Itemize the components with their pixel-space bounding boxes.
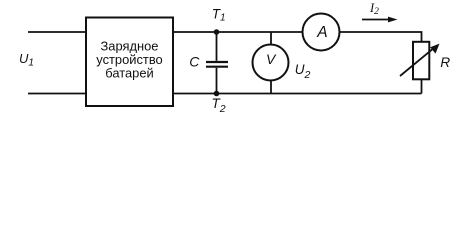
node T1 junction dot	[214, 29, 220, 35]
wire top: box to ammeter	[173, 31, 303, 33]
current arrow I2 head	[388, 17, 398, 23]
svg-text:T2: T2	[212, 96, 226, 115]
svg-text:R: R	[440, 55, 450, 70]
resistor variable arrow line	[400, 48, 434, 76]
current arrow I2 line	[362, 19, 389, 21]
node T2 junction dot	[214, 91, 220, 97]
resistor R body	[413, 42, 429, 80]
ammeter A circle	[303, 14, 340, 51]
svg-text:T1: T1	[212, 6, 226, 23]
block U charger	[86, 18, 173, 107]
wire input top-left	[28, 31, 86, 33]
svg-text:U2: U2	[295, 62, 311, 81]
svg-text:I2: I2	[369, 1, 379, 17]
capacitor C plates	[206, 61, 228, 63]
wire top: ammeter to resistor	[340, 32, 422, 42]
capacitor C top lead	[216, 32, 218, 61]
svg-text:C: C	[189, 54, 200, 70]
voltmeter top lead	[270, 32, 272, 45]
resistor variable arrow head	[430, 44, 439, 54]
svg-text:A: A	[316, 24, 327, 41]
voltmeter U1 circle	[253, 45, 289, 81]
svg-text:U1: U1	[19, 51, 34, 69]
svg-text:батарей: батарей	[105, 66, 153, 81]
resistor R bottom lead	[421, 80, 423, 94]
capacitor C bottom lead	[216, 68, 218, 94]
voltmeter bottom lead	[270, 81, 272, 94]
wire bottom: box to resistor	[173, 93, 422, 95]
wire input bottom-left	[28, 93, 86, 95]
